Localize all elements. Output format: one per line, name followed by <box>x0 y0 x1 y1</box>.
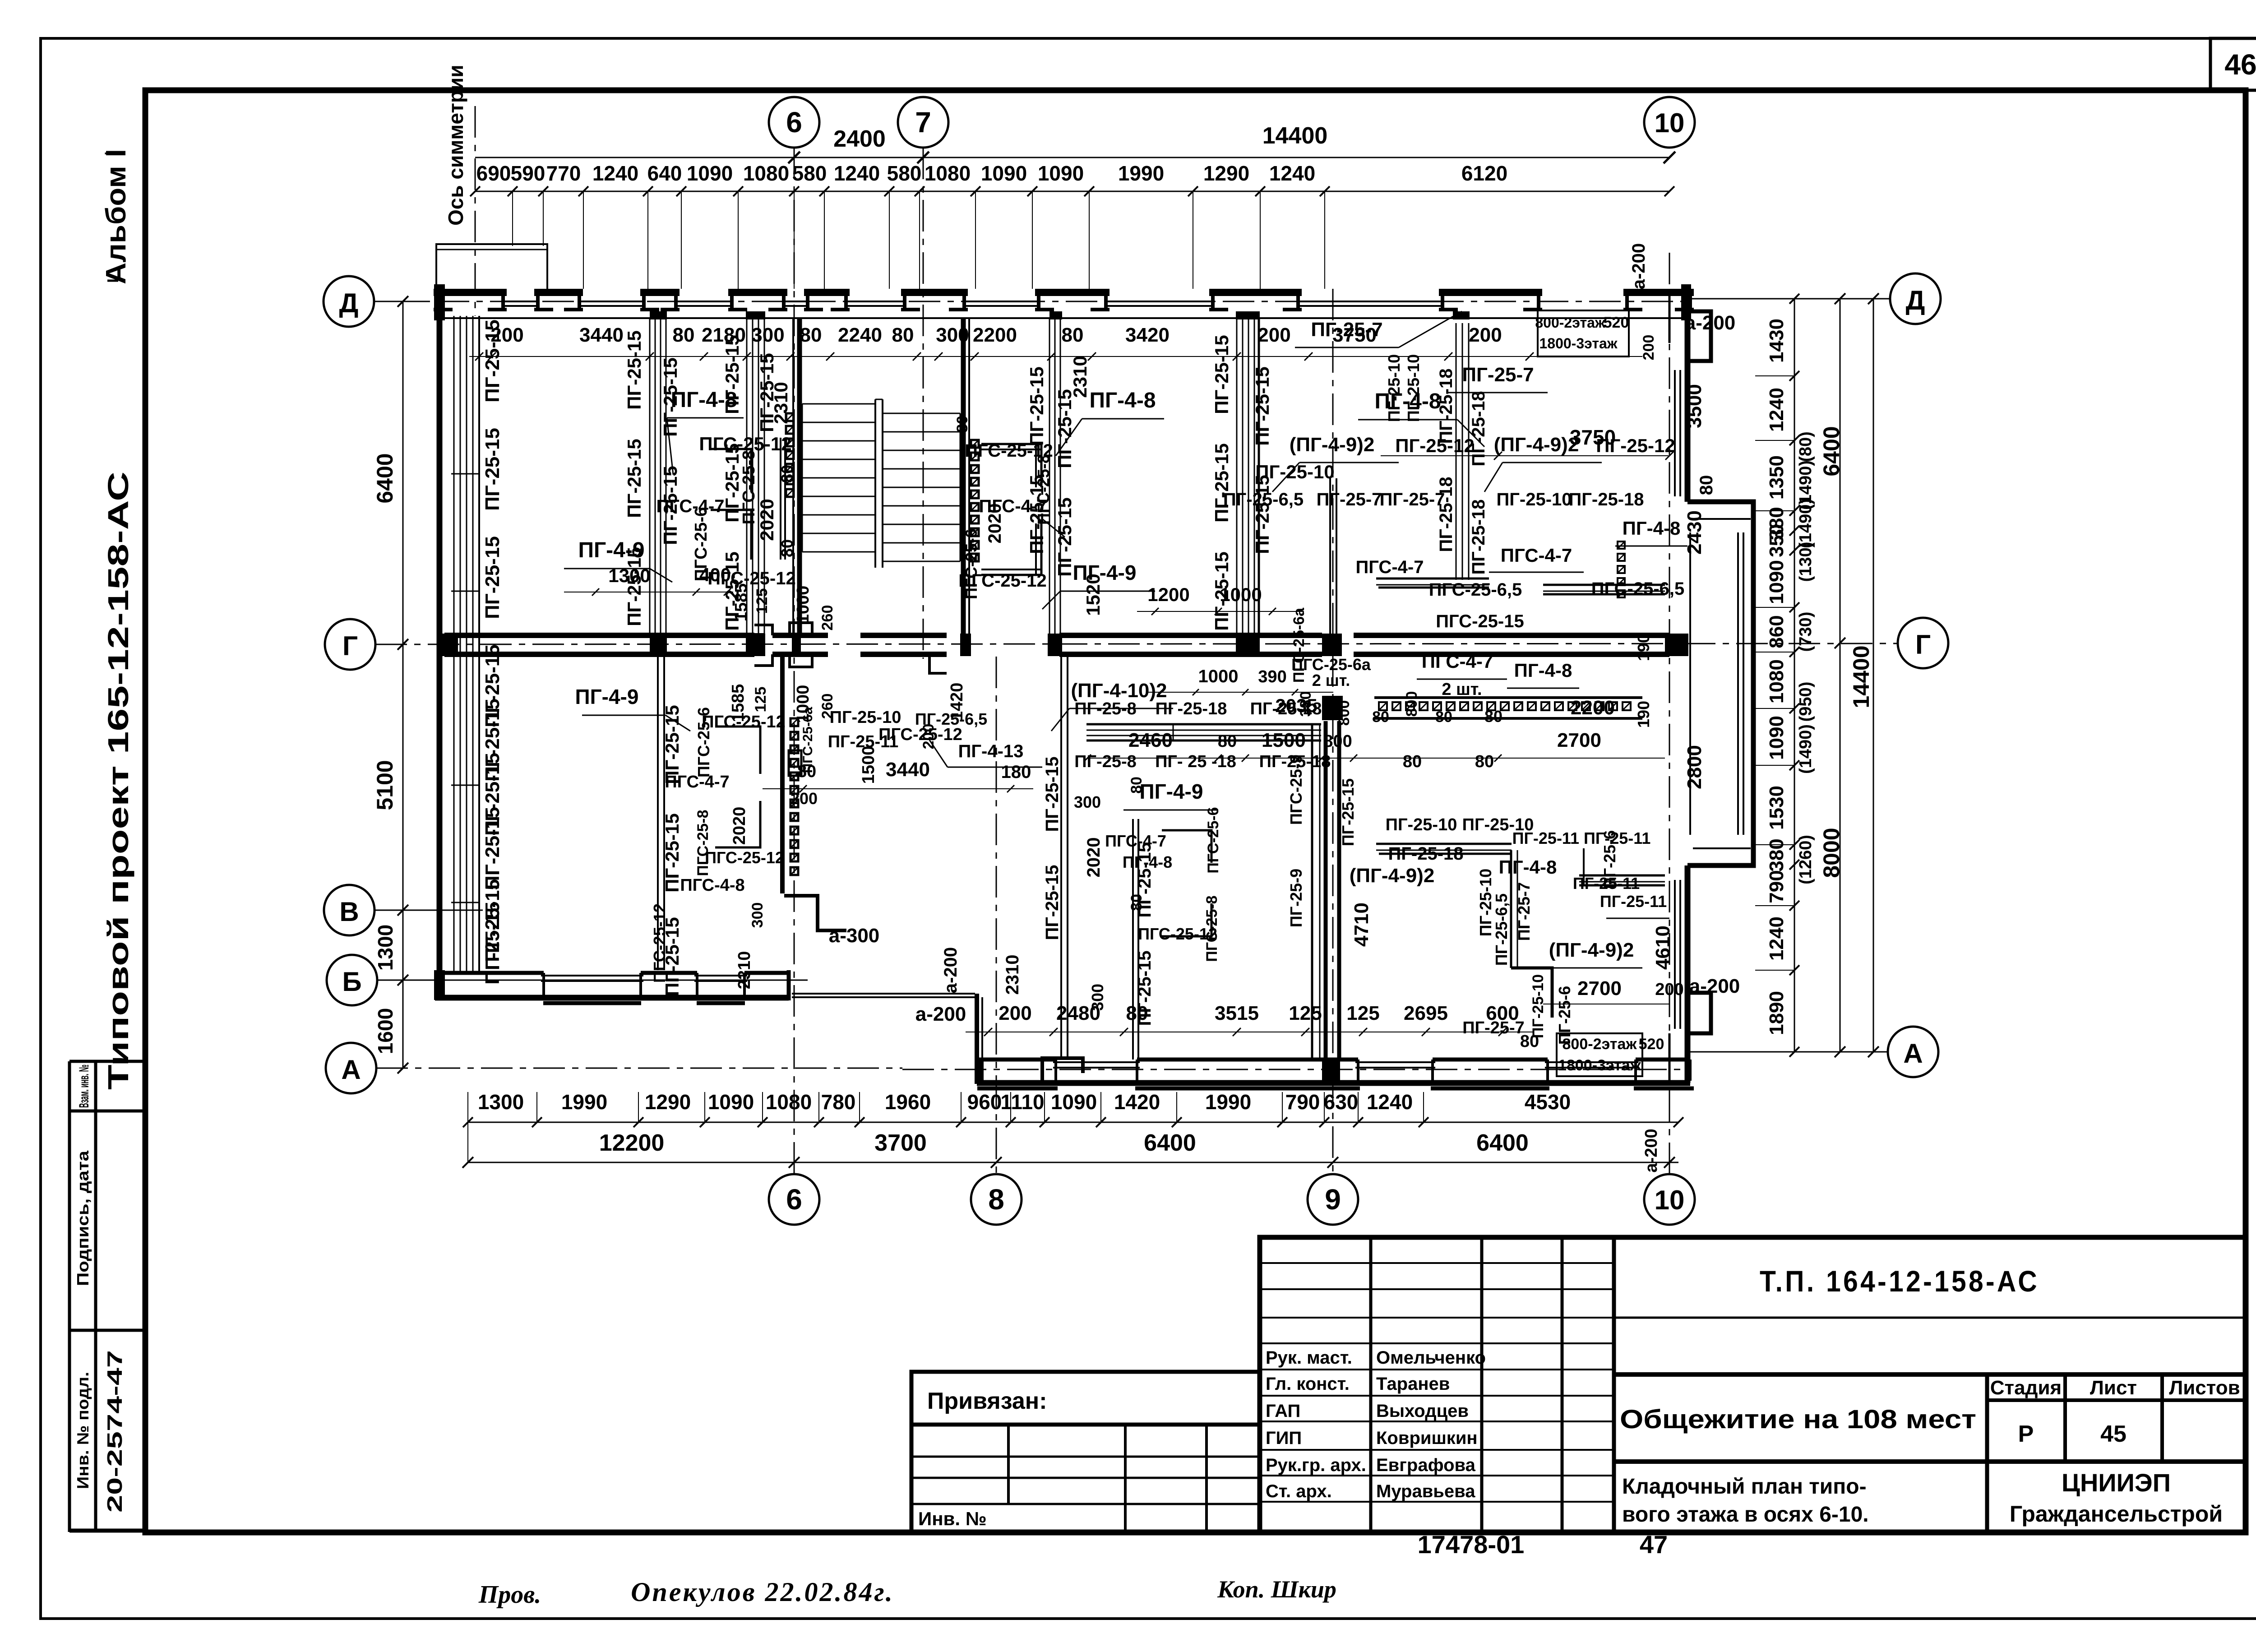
step jog below closets <box>784 896 846 930</box>
svg-text:1240: 1240 <box>1766 388 1788 432</box>
stair dims 1300 400 <box>564 592 733 592</box>
svg-text:2460: 2460 <box>1128 729 1173 751</box>
svg-text:ПГ-25-15: ПГ-25-15 <box>1054 389 1075 468</box>
svg-text:ПГ-25-10: ПГ-25-10 <box>1385 354 1403 422</box>
svg-text:Лист: Лист <box>2090 1377 2137 1399</box>
svg-text:(ПГ-4-9)2: (ПГ-4-9)2 <box>1350 865 1435 887</box>
svg-text:2695: 2695 <box>1404 1002 1448 1024</box>
svg-text:(730): (730) <box>1796 612 1815 652</box>
svg-text:1300: 1300 <box>478 1090 524 1114</box>
svg-text:125: 125 <box>1289 1002 1322 1024</box>
axis circle 6 bottom <box>769 1174 819 1225</box>
svg-text:6400: 6400 <box>372 453 398 503</box>
svg-text:2020: 2020 <box>756 499 777 541</box>
svg-text:ГАП: ГАП <box>1266 1401 1300 1421</box>
svg-text:860: 860 <box>1766 615 1788 648</box>
svg-text:ПГС-25-12: ПГС-25-12 <box>707 569 795 588</box>
bottom wall pier cornices <box>977 1087 1058 1091</box>
axis circle 10 bottom <box>1644 1174 1695 1225</box>
svg-text:ПГ-4-9: ПГ-4-9 <box>1073 561 1137 584</box>
svg-text:ПГС-25-8: ПГС-25-8 <box>1034 454 1053 525</box>
bottom coarse dimension line <box>468 1162 1678 1163</box>
svg-text:380: 380 <box>1766 838 1788 871</box>
svg-text:Р: Р <box>2018 1421 2034 1447</box>
svg-text:5100: 5100 <box>372 760 398 810</box>
svg-text:1500: 1500 <box>859 746 878 784</box>
svg-text:ПГС-25-6,5: ПГС-25-6,5 <box>1429 580 1522 600</box>
svg-text:1240: 1240 <box>592 162 638 185</box>
vent block column right corridor <box>1618 541 1625 549</box>
svg-text:Кладочный план типо-: Кладочный план типо- <box>1622 1475 1867 1499</box>
right wall window upper <box>1674 370 1676 496</box>
svg-text:(ПГ-4-9)2: (ПГ-4-9)2 <box>1290 434 1375 456</box>
svg-text:ПГ-25-6,5: ПГ-25-6,5 <box>915 710 987 728</box>
axis circle B left <box>327 955 377 1005</box>
svg-text:80: 80 <box>673 324 695 346</box>
right bay window <box>1687 502 1753 865</box>
svg-text:1300: 1300 <box>374 925 397 971</box>
svg-text:3420: 3420 <box>1125 324 1170 346</box>
svg-text:ПГ-4-8: ПГ-4-8 <box>670 388 737 412</box>
svg-text:80: 80 <box>1484 707 1502 726</box>
axis circle V left <box>324 885 374 935</box>
svg-text:Типовой проект 165-12-158-АС: Типовой проект 165-12-158-АС <box>102 472 134 1090</box>
right middle dimension line <box>1840 299 1841 1052</box>
svg-text:Граждансельстрой: Граждансельстрой <box>2010 1501 2223 1527</box>
svg-text:8: 8 <box>988 1183 1004 1216</box>
svg-text:960: 960 <box>967 1090 1002 1114</box>
svg-text:Пров.: Пров. <box>478 1581 541 1609</box>
svg-text:ПГ-25-15: ПГ-25-15 <box>1026 366 1047 445</box>
svg-text:ПГС-25-6,5: ПГС-25-6,5 <box>1591 579 1685 599</box>
svg-text:3700: 3700 <box>874 1130 927 1156</box>
interior wall bundle x1675 upper <box>746 318 748 634</box>
svg-text:2200: 2200 <box>1571 697 1615 719</box>
top niche 800-2etazh <box>1538 310 1629 356</box>
svg-text:690: 690 <box>476 162 511 185</box>
svg-text:6400: 6400 <box>1476 1130 1529 1156</box>
symmetry axis line <box>475 106 476 316</box>
svg-text:300: 300 <box>936 324 969 346</box>
svg-text:1290: 1290 <box>645 1090 691 1114</box>
svg-text:125: 125 <box>752 687 769 713</box>
svg-text:ПГ-25-10: ПГ-25-10 <box>1496 490 1572 509</box>
svg-text:Листов: Листов <box>2169 1377 2240 1399</box>
svg-text:Ковришкин: Ковришкин <box>1376 1428 1478 1448</box>
interior wall x1465 lower <box>657 657 659 970</box>
left exterior wall <box>437 289 443 998</box>
svg-text:2 шт.: 2 шт. <box>1312 671 1350 689</box>
svg-text:ПГС-4-7: ПГС-4-7 <box>656 496 725 516</box>
svg-text:580: 580 <box>792 162 827 185</box>
svg-text:Г: Г <box>1915 629 1931 660</box>
svg-text:(1490): (1490) <box>1796 499 1815 548</box>
svg-text:6120: 6120 <box>1461 162 1507 185</box>
svg-text:1080: 1080 <box>1766 659 1788 703</box>
svg-text:ПГ-25-15: ПГ-25-15 <box>624 330 645 409</box>
svg-text:а-200: а-200 <box>1629 243 1649 289</box>
svg-text:Ст. арх.: Ст. арх. <box>1266 1481 1332 1501</box>
svg-text:640: 640 <box>647 162 682 185</box>
svg-text:ПГС-25-12: ПГС-25-12 <box>1138 925 1217 943</box>
interior wall bundle x1460 upper <box>649 318 651 634</box>
svg-text:1240: 1240 <box>834 162 880 185</box>
svg-text:200: 200 <box>999 1002 1031 1024</box>
svg-text:260: 260 <box>819 605 836 631</box>
svg-text:(ПГ-4-9)2: (ПГ-4-9)2 <box>1494 434 1579 456</box>
svg-text:1090: 1090 <box>687 162 733 185</box>
svg-text:ПГ-25-12: ПГ-25-12 <box>1596 435 1675 456</box>
svg-text:45: 45 <box>2100 1421 2127 1447</box>
svg-text:12200: 12200 <box>599 1130 665 1156</box>
svg-text:1110: 1110 <box>1000 1090 1044 1114</box>
top fine dimension chain <box>475 191 1669 192</box>
svg-text:200: 200 <box>1655 980 1683 999</box>
title block right structure <box>1614 1317 2246 1319</box>
svg-text:ПГС-25-8: ПГС-25-8 <box>740 450 758 525</box>
stair right wall <box>961 318 966 634</box>
svg-text:ПГ-25-11: ПГ-25-11 <box>828 732 899 751</box>
svg-text:80: 80 <box>1372 708 1389 726</box>
svg-text:а-200: а-200 <box>941 947 961 993</box>
svg-text:ПГ-4-8: ПГ-4-8 <box>1089 389 1156 412</box>
svg-text:ПГС-25-12: ПГС-25-12 <box>702 713 786 731</box>
closet below G left <box>715 727 760 774</box>
svg-text:ПГ-25-10: ПГ-25-10 <box>1530 974 1547 1038</box>
room wall below G right part <box>1376 843 1512 845</box>
svg-text:790: 790 <box>1766 870 1788 903</box>
svg-text:(1490): (1490) <box>1796 724 1815 774</box>
svg-text:Взам. инв. №: Взам. инв. № <box>77 1064 92 1108</box>
svg-text:Омельченко: Омельченко <box>1376 1348 1486 1368</box>
svg-text:80: 80 <box>1697 475 1716 495</box>
svg-text:3440: 3440 <box>579 324 624 346</box>
svg-text:47: 47 <box>1640 1530 1668 1559</box>
svg-text:ПГ-25-15: ПГ-25-15 <box>1339 778 1357 846</box>
corridor wall G segment right <box>1354 633 1669 638</box>
svg-text:1090: 1090 <box>708 1090 754 1114</box>
stair left wall <box>797 318 802 634</box>
right outer dimension line <box>1873 299 1874 1052</box>
right exterior wall <box>1685 289 1691 502</box>
svg-text:1240: 1240 <box>1269 162 1315 185</box>
svg-text:(950): (950) <box>1796 682 1815 722</box>
svg-text:800-2этаж: 800-2этаж <box>1535 315 1605 331</box>
svg-text:770: 770 <box>546 162 581 185</box>
svg-text:4530: 4530 <box>1525 1090 1571 1114</box>
corridor G junction piece <box>754 625 772 635</box>
svg-text:190: 190 <box>1634 634 1653 661</box>
svg-text:а-200: а-200 <box>915 1003 966 1025</box>
svg-text:ПГС-25-6а: ПГС-25-6а <box>1290 607 1308 683</box>
svg-text:Общежитие на 108 мест: Общежитие на 108 мест <box>1620 1405 1976 1434</box>
svg-text:В: В <box>339 897 359 927</box>
svg-text:1000: 1000 <box>794 586 813 624</box>
svg-text:1090: 1090 <box>1038 162 1084 185</box>
svg-text:А: А <box>1903 1038 1923 1069</box>
svg-text:ПГ-25-15: ПГ-25-15 <box>481 807 504 890</box>
svg-text:7: 7 <box>915 106 931 139</box>
svg-text:80: 80 <box>1062 324 1084 346</box>
axis circle 7 top <box>898 97 948 148</box>
svg-text:ПГ-25-18: ПГ-25-18 <box>1388 844 1463 864</box>
svg-text:200: 200 <box>1640 335 1657 361</box>
svg-text:ПГС-25-12: ПГС-25-12 <box>958 571 1046 591</box>
svg-text:2430: 2430 <box>1683 510 1706 555</box>
svg-text:ПГ-25-18: ПГ-25-18 <box>1469 499 1489 574</box>
svg-text:ПГС-25-12: ПГС-25-12 <box>650 903 669 983</box>
svg-text:Т.П. 164-12-158-АС: Т.П. 164-12-158-АС <box>1760 1264 2039 1298</box>
svg-text:3515: 3515 <box>1215 1002 1259 1024</box>
svg-text:ПГ-25-15: ПГ-25-15 <box>1042 756 1062 832</box>
svg-text:3440: 3440 <box>886 759 930 781</box>
svg-text:10: 10 <box>1655 108 1685 138</box>
svg-text:ПГС-4-7: ПГС-4-7 <box>1501 545 1572 566</box>
svg-text:1600: 1600 <box>374 1008 397 1054</box>
svg-text:ПГС-25-12: ПГС-25-12 <box>705 848 784 867</box>
vent blocks column left of stair <box>786 413 794 421</box>
svg-text:ПГ-4-13: ПГ-4-13 <box>958 741 1024 761</box>
svg-text:ПГ-4-8: ПГ-4-8 <box>1123 853 1172 871</box>
svg-text:9: 9 <box>1325 1183 1341 1216</box>
svg-text:ПГ-25-7: ПГ-25-7 <box>1317 490 1382 509</box>
svg-text:(1260): (1260) <box>1796 835 1815 884</box>
svg-text:1500: 1500 <box>1262 729 1306 751</box>
svg-text:а-200: а-200 <box>1685 312 1736 334</box>
svg-text:80: 80 <box>954 416 971 433</box>
svg-text:ПГ-25-15: ПГ-25-15 <box>1042 865 1062 940</box>
svg-text:ПГ-25-15: ПГ-25-15 <box>481 319 504 403</box>
svg-text:520: 520 <box>1639 1036 1664 1053</box>
wall x2915 vertical below G <box>1311 724 1313 1060</box>
svg-text:6: 6 <box>786 106 802 139</box>
svg-text:14400: 14400 <box>1849 645 1874 708</box>
svg-text:ПГ-25-15: ПГ-25-15 <box>481 699 504 782</box>
svg-text:ПГ-25-8: ПГ-25-8 <box>1074 699 1137 718</box>
axis circle G left <box>325 619 375 670</box>
svg-text:Инв. № подл.: Инв. № подл. <box>74 1372 92 1489</box>
svg-text:ПГС-4-8: ПГС-4-8 <box>680 876 744 895</box>
axis circle D right <box>1890 273 1941 324</box>
svg-text:2 шт.: 2 шт. <box>1442 680 1482 699</box>
svg-text:Рук.гр. арх.: Рук.гр. арх. <box>1266 1455 1366 1475</box>
svg-text:1990: 1990 <box>1118 162 1164 185</box>
svg-text:6: 6 <box>786 1183 802 1216</box>
axis line 6 vertical <box>794 148 795 1174</box>
svg-text:ПГС-4-7: ПГС-4-7 <box>665 773 729 791</box>
svg-text:125: 125 <box>754 588 771 614</box>
svg-text:Б: Б <box>342 967 361 997</box>
svg-text:350: 350 <box>1766 524 1788 557</box>
svg-text:2310: 2310 <box>735 951 754 990</box>
top wall inner face line <box>437 317 1690 319</box>
right wall window lower <box>1674 880 1676 1029</box>
svg-text:ПГС-4-7: ПГС-4-7 <box>1422 651 1493 672</box>
svg-text:4610: 4610 <box>1652 925 1674 970</box>
svg-text:ПГ-25-15: ПГ-25-15 <box>1211 443 1232 522</box>
svg-text:2310: 2310 <box>1003 955 1022 995</box>
svg-text:300: 300 <box>1088 984 1107 1011</box>
svg-text:ПГ-25-12: ПГ-25-12 <box>1395 435 1474 456</box>
svg-text:2020: 2020 <box>1084 838 1104 878</box>
dim 3440 180 row mid <box>763 788 1033 789</box>
svg-text:Гл. конст.: Гл. конст. <box>1266 1374 1350 1394</box>
svg-text:80: 80 <box>778 465 796 483</box>
corridor wall G middle <box>860 633 947 638</box>
svg-text:46: 46 <box>2224 48 2256 81</box>
bottom-left exterior wall row B <box>435 995 789 1001</box>
svg-text:ПГ-25-9: ПГ-25-9 <box>1287 869 1305 927</box>
svg-text:Коп. Шкир: Коп. Шкир <box>1217 1576 1336 1603</box>
a-200 corner jog <box>1042 1058 1083 1081</box>
svg-text:ПГ-25-7: ПГ-25-7 <box>1311 319 1382 341</box>
vent blocks column below G <box>791 718 798 726</box>
svg-text:1800-3этаж: 1800-3этаж <box>1558 1057 1641 1074</box>
axis circle A left <box>326 1043 376 1093</box>
svg-text:580: 580 <box>887 162 922 185</box>
svg-text:630: 630 <box>1324 1090 1359 1114</box>
svg-text:ПГ-25-15: ПГ-25-15 <box>721 551 743 630</box>
svg-text:ПГ-25-15: ПГ-25-15 <box>481 536 504 619</box>
svg-text:Опекулов 22.02.84г.: Опекулов 22.02.84г. <box>631 1577 894 1607</box>
svg-text:ПГС-4-7: ПГС-4-7 <box>1105 832 1166 850</box>
axis line D horizontal <box>374 301 403 302</box>
axis line 8 vertical <box>996 657 997 1174</box>
right extension lines <box>1710 298 1890 299</box>
svg-text:300: 300 <box>749 902 766 928</box>
bottom extension lines <box>467 1092 468 1122</box>
axis line A horizontal <box>376 1068 902 1069</box>
wall junction blobs <box>650 634 667 656</box>
svg-text:80: 80 <box>892 324 914 346</box>
svg-text:ПГ-25-18: ПГ-25-18 <box>1568 490 1644 509</box>
entrance canopy top left <box>436 244 547 289</box>
svg-text:1430: 1430 <box>1766 319 1788 363</box>
axis circle 6 top <box>769 97 819 148</box>
svg-text:(80): (80) <box>1796 431 1815 462</box>
svg-text:ПГ-25-18: ПГ-25-18 <box>1259 752 1331 771</box>
svg-text:ПГ-25-15: ПГ-25-15 <box>756 353 777 432</box>
svg-text:Таранев: Таранев <box>1376 1374 1450 1394</box>
svg-text:1290: 1290 <box>1203 162 1249 185</box>
svg-text:ПГ-25-10: ПГ-25-10 <box>1404 354 1423 422</box>
svg-text:800: 800 <box>1336 700 1353 726</box>
svg-text:2700: 2700 <box>1577 977 1622 1000</box>
svg-text:1990: 1990 <box>561 1090 607 1114</box>
svg-text:ПГС-4-7: ПГС-4-7 <box>1356 557 1424 577</box>
right fine dimension chain <box>1794 299 1795 1052</box>
svg-text:Стадия: Стадия <box>1990 1377 2062 1399</box>
svg-text:ПГ-25-18: ПГ-25-18 <box>1436 477 1456 552</box>
dim 3750 row right upper <box>1381 455 1669 456</box>
top exterior wall row D <box>434 289 507 296</box>
svg-text:8000: 8000 <box>1819 828 1844 878</box>
axis circle 8 bottom <box>971 1174 1022 1225</box>
svg-text:590: 590 <box>511 162 546 185</box>
svg-text:1890: 1890 <box>1766 991 1788 1035</box>
svg-text:(130): (130) <box>1796 542 1815 582</box>
tambour west wall <box>975 994 979 1082</box>
corridor wall G left part <box>444 633 754 638</box>
svg-text:ПГ-25-11: ПГ-25-11 <box>1600 892 1667 911</box>
svg-text:Рук. маст.: Рук. маст. <box>1266 1348 1352 1368</box>
svg-text:ПГ-25-7: ПГ-25-7 <box>1515 882 1533 941</box>
svg-text:190: 190 <box>1634 701 1653 728</box>
svg-text:6400: 6400 <box>1144 1130 1196 1156</box>
svg-text:ПГ-25-7: ПГ-25-7 <box>1462 1018 1525 1037</box>
right wall top jog <box>1690 311 1711 361</box>
svg-text:вого этажа в осях 6-10.: вого этажа в осях 6-10. <box>1622 1503 1869 1527</box>
svg-text:ПГ- 25 -18: ПГ- 25 -18 <box>1155 752 1236 771</box>
closet walls left of stair <box>711 449 751 492</box>
svg-text:1080: 1080 <box>925 162 971 185</box>
vent blocks column right of stair <box>971 440 979 448</box>
svg-text:ГИП: ГИП <box>1266 1428 1302 1448</box>
lintel strip PG-25-12 right upper <box>1543 584 1665 586</box>
svg-text:Г: Г <box>342 631 358 661</box>
svg-text:1200: 1200 <box>1147 584 1189 605</box>
svg-text:ПГ-25-15: ПГ-25-15 <box>1211 335 1232 414</box>
svg-text:1240: 1240 <box>1766 916 1788 961</box>
svg-text:1000: 1000 <box>1198 666 1239 686</box>
svg-text:ПГ-25-15: ПГ-25-15 <box>661 813 683 892</box>
svg-text:790: 790 <box>1285 1090 1320 1114</box>
svg-text:ПГ-4-8: ПГ-4-8 <box>1623 518 1681 539</box>
svg-text:1080: 1080 <box>766 1090 812 1114</box>
svg-text:ПГ-4-9: ПГ-4-9 <box>575 685 639 708</box>
svg-text:ПГ-25-11 ПГ-25-11: ПГ-25-11 ПГ-25-11 <box>1512 829 1651 847</box>
svg-text:800: 800 <box>1323 732 1352 751</box>
svg-text:А: А <box>341 1055 361 1085</box>
corridor wall G right of stairs <box>1059 633 1322 638</box>
svg-text:2020: 2020 <box>730 807 749 845</box>
axis line 7 vertical <box>923 148 924 659</box>
closet U right of stair <box>981 443 1041 445</box>
svg-text:80: 80 <box>1435 708 1452 726</box>
svg-text:ПГС-25-6: ПГС-25-6 <box>1205 807 1222 873</box>
svg-text:(ПГ-4-9)2: (ПГ-4-9)2 <box>1549 939 1634 961</box>
interior wall bundle x2765 upper <box>1236 318 1238 634</box>
svg-text:ПГ-25-15: ПГ-25-15 <box>1252 475 1273 554</box>
axis circle D left <box>324 276 374 327</box>
closet thin wall x1735 <box>780 438 781 560</box>
svg-text:180: 180 <box>1001 762 1031 782</box>
svg-text:200: 200 <box>1257 324 1290 346</box>
dims mid right part <box>1087 758 1665 759</box>
stair right flight steps <box>883 413 960 414</box>
svg-text:2400: 2400 <box>833 126 886 152</box>
svg-text:ПГ-25-7: ПГ-25-7 <box>1380 490 1445 509</box>
stair dims 1520 1200 1000 <box>1137 611 1304 612</box>
svg-text:ПГ-25-15: ПГ-25-15 <box>481 428 504 511</box>
svg-text:125: 125 <box>1346 1002 1379 1024</box>
svg-text:Альбом I: Альбом I <box>101 149 132 284</box>
privyazan box <box>911 1372 1260 1425</box>
svg-text:ПГ-25-15: ПГ-25-15 <box>1211 551 1232 630</box>
etazh box bottom right <box>1557 1033 1642 1076</box>
svg-text:Д: Д <box>1906 285 1925 315</box>
wall x2513 thin lower <box>1132 819 1134 1060</box>
B wall end cap <box>787 970 791 1000</box>
svg-text:Д: Д <box>339 288 359 318</box>
svg-text:ПГ-25-15: ПГ-25-15 <box>624 439 645 518</box>
axis line G horizontal <box>375 643 1898 644</box>
axis line B horizontal <box>377 980 808 981</box>
svg-text:а-300: а-300 <box>829 925 880 947</box>
svg-text:1090: 1090 <box>981 162 1027 185</box>
svg-text:20-2574-47: 20-2574-47 <box>103 1350 126 1513</box>
svg-text:800: 800 <box>1403 691 1420 717</box>
